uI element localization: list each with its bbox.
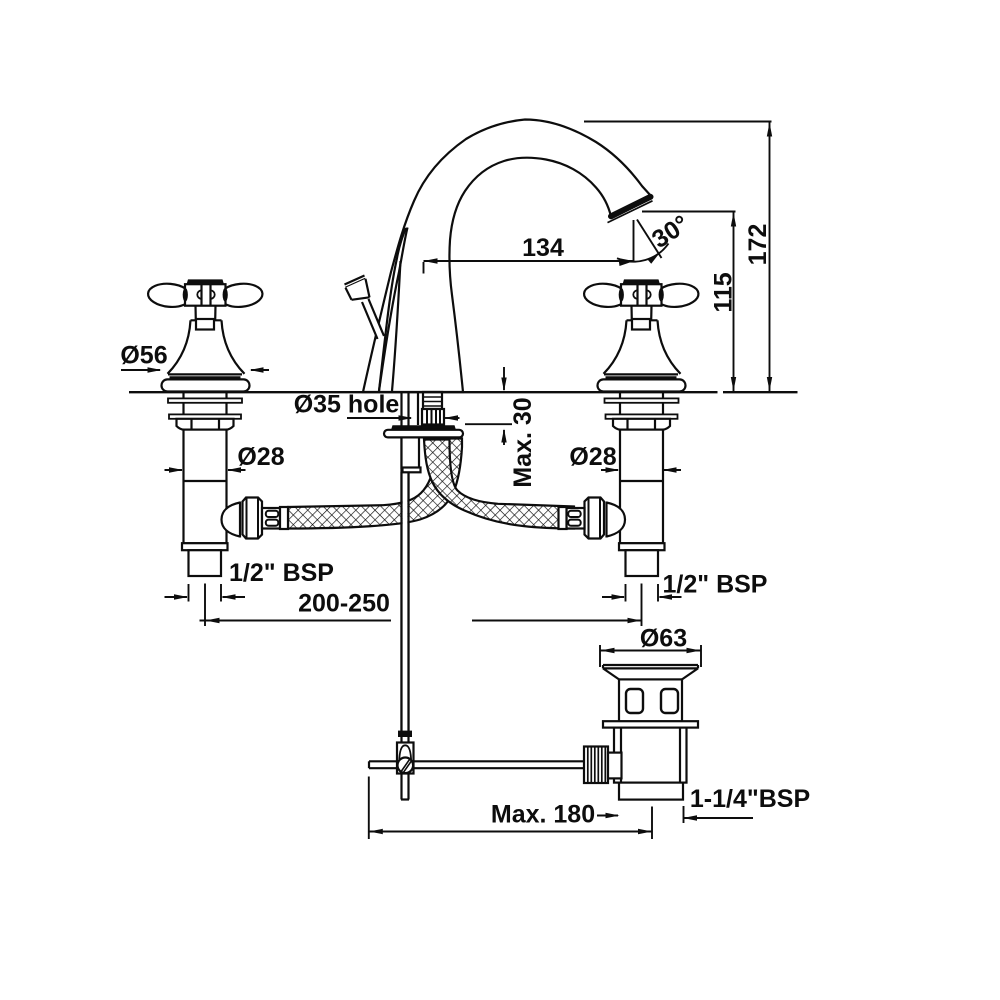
svg-text:Ø35 hole: Ø35 hole xyxy=(294,391,400,419)
svg-text:1-1/4"BSP: 1-1/4"BSP xyxy=(690,785,810,813)
svg-text:200-250: 200-250 xyxy=(298,590,390,618)
svg-text:Max. 30: Max. 30 xyxy=(509,397,537,487)
svg-text:Ø28: Ø28 xyxy=(569,443,616,471)
svg-text:Max. 180: Max. 180 xyxy=(491,801,595,829)
svg-text:Ø28: Ø28 xyxy=(237,443,284,471)
svg-text:1/2" BSP: 1/2" BSP xyxy=(663,571,768,599)
svg-text:1/2" BSP: 1/2" BSP xyxy=(229,559,334,587)
svg-text:115: 115 xyxy=(710,272,738,312)
svg-text:Ø63: Ø63 xyxy=(640,625,687,653)
svg-text:Ø56: Ø56 xyxy=(120,342,167,370)
svg-text:172: 172 xyxy=(744,224,772,266)
svg-text:134: 134 xyxy=(522,234,564,262)
